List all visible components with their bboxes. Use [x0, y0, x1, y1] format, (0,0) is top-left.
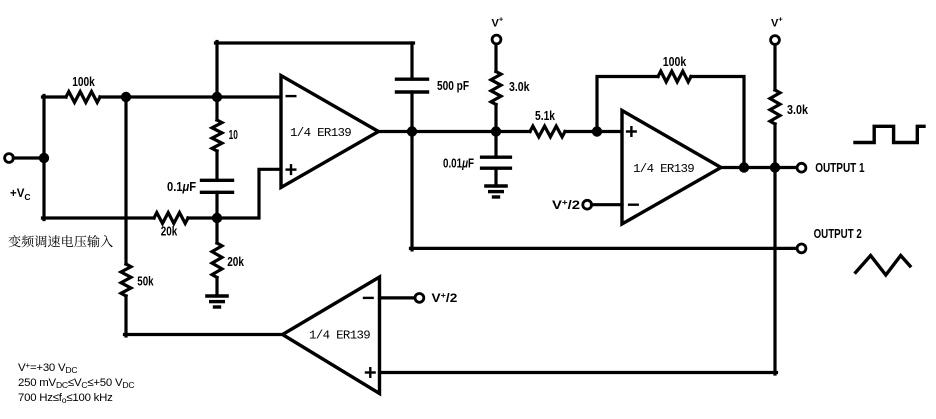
svg-text:100k: 100k	[663, 55, 687, 69]
wire node I down to U3 non-inverting row	[773, 168, 776, 375]
wire R1 to node B	[100, 95, 126, 98]
wire R2 to capacitor C1	[215, 151, 218, 180]
node H junction	[739, 162, 749, 172]
capacitor C3 0.01uF	[480, 155, 512, 158]
svg-text:20k: 20k	[161, 225, 178, 239]
node A junction	[39, 153, 49, 163]
wire U3 inverting input to V+/2 terminal	[380, 296, 416, 299]
svg-text:50k: 50k	[137, 275, 153, 289]
resistor R7 5.1k	[530, 126, 565, 137]
svg-text:V+: V+	[492, 15, 504, 30]
label Chinese: frequency-conversion speed-regulation voltage input	[8, 235, 113, 247]
node E down wire to OUTPUT2 row	[410, 132, 413, 250]
terminal V+ left	[492, 35, 501, 44]
U1 plus sign	[287, 168, 296, 170]
terminal OUTPUT 2	[797, 244, 806, 253]
wire node B to node C	[126, 95, 217, 98]
svg-text:20k: 20k	[227, 255, 244, 269]
terminal V+/2 for U2	[583, 200, 592, 209]
resistor R4 20k horizontal	[154, 213, 188, 224]
wire to resistor R4	[43, 216, 155, 219]
wire C3 to ground	[494, 168, 497, 186]
wire R3 to V+ terminal	[494, 44, 497, 72]
svg-text:+VC: +VC	[10, 188, 31, 202]
terminal V+/2 for U3	[415, 294, 424, 303]
svg-text:V+/2: V+/2	[432, 291, 458, 305]
wire node I up to resistor R9	[773, 124, 776, 168]
svg-text:3.0k: 3.0k	[509, 80, 530, 94]
resistor R1 100k	[66, 92, 100, 103]
svg-text:1/4 ER139: 1/4 ER139	[309, 328, 370, 342]
U3 minus sign	[364, 297, 373, 299]
wire U2 output to node H	[721, 166, 744, 169]
svg-text:0.01μF: 0.01μF	[443, 157, 474, 171]
ground G1	[205, 294, 229, 297]
wire to resistor R1	[43, 95, 67, 98]
note line 3: 700 Hz <= fo <= 100 kHz	[18, 391, 134, 406]
resistor R2 10	[212, 120, 222, 151]
U3 plus sign	[366, 371, 375, 373]
resistor R6 50k	[121, 264, 131, 296]
capacitor C2 500pF	[395, 77, 429, 80]
svg-text:0.1μF: 0.1μF	[167, 180, 196, 194]
input terminal +Vc	[5, 154, 14, 163]
wire U1 output to node E	[379, 130, 413, 133]
resistor R3 3.0k	[491, 72, 501, 105]
svg-text:5.1k: 5.1k	[535, 109, 555, 123]
svg-text:V+/2: V+/2	[552, 198, 580, 212]
wire input to node A	[13, 156, 44, 159]
wire 50k to U3 output row	[124, 296, 127, 336]
wire R7 to node G	[565, 130, 597, 133]
node I junction	[770, 162, 780, 172]
wire node F up to resistor R3	[494, 105, 497, 132]
node E junction	[407, 126, 417, 136]
wire node F to resistor R7	[496, 130, 530, 133]
op-amp U3 triangle (points left)	[283, 277, 380, 394]
node C junction	[212, 92, 222, 102]
resistor R5 20k vertical	[212, 243, 222, 278]
wire node A down to 20k row	[42, 158, 45, 220]
wire node D right then up to U1 non-inverting input	[217, 169, 281, 218]
capacitor C1 0.1uF	[200, 179, 234, 182]
wire node B down to 50k (crosses 20k row)	[124, 97, 127, 264]
ground G2	[484, 184, 508, 187]
wire node C to op-amp U1 inverting input	[217, 95, 281, 98]
wire C2 to node E	[410, 92, 413, 132]
node D junction	[212, 213, 222, 223]
op-amp U2 triangle	[622, 111, 721, 225]
svg-text:100k: 100k	[72, 75, 95, 89]
wire node C down to resistor R2	[215, 99, 218, 121]
node F junction	[491, 126, 501, 136]
svg-text:OUTPUT 1: OUTPUT 1	[815, 161, 864, 175]
svg-text:10: 10	[229, 128, 238, 142]
svg-text:1/4 ER139: 1/4 ER139	[633, 162, 694, 176]
U2 plus sign	[627, 130, 636, 132]
wire R9 to V+ terminal right	[773, 44, 776, 90]
note line 2: 250 mVDC <= VC <= +50 VDC	[18, 376, 134, 391]
svg-text:V+: V+	[771, 15, 783, 30]
svg-text:OUTPUT 2: OUTPUT 2	[814, 227, 862, 241]
square wave icon	[855, 126, 924, 142]
top feedback rail wire	[216, 41, 414, 44]
OUTPUT 2 wire	[411, 247, 798, 250]
wire C1 to node D	[215, 192, 218, 218]
wire node G up to feedback row then to resistor R8	[597, 77, 658, 134]
terminal V+ right	[771, 36, 780, 45]
svg-text:500 pF: 500 pF	[437, 79, 469, 93]
wire U3 non-inverting input	[380, 371, 777, 374]
wire R4 to node D	[188, 216, 217, 219]
svg-text:3.0k: 3.0k	[787, 103, 808, 117]
wire node C up to top rail	[215, 42, 218, 98]
wire R5 to ground	[215, 278, 218, 297]
op-amp U1 triangle	[281, 76, 379, 188]
resistor R8 100k feedback	[658, 71, 691, 82]
triangle wave icon	[856, 256, 910, 276]
U2 minus sign	[629, 203, 638, 205]
U1 minus sign	[287, 95, 296, 97]
node B junction	[121, 92, 131, 102]
wire node D down to resistor R5	[215, 218, 218, 243]
node G junction	[592, 126, 602, 136]
wire top rail down to capacitor C2	[410, 43, 413, 79]
wire node H to node I	[744, 166, 775, 169]
wire to op-amp U3 output apex	[125, 333, 284, 336]
note line 1: V+ = +30 VDC	[18, 361, 134, 376]
wire node E to node F	[412, 130, 496, 133]
wire R8 to right then down to node H	[691, 77, 744, 168]
terminal OUTPUT 1	[797, 163, 806, 172]
resistor R9 3.0k	[770, 90, 780, 124]
wire node A up to 100k row	[42, 96, 45, 160]
wire node I to OUTPUT 1 terminal	[775, 166, 797, 169]
svg-text:1/4 ER139: 1/4 ER139	[290, 126, 351, 140]
wire node G to U2 non-inverting input	[597, 130, 622, 133]
wire node F down to capacitor C3	[494, 132, 497, 158]
wire V+/2 to U2 inverting input	[592, 203, 623, 206]
